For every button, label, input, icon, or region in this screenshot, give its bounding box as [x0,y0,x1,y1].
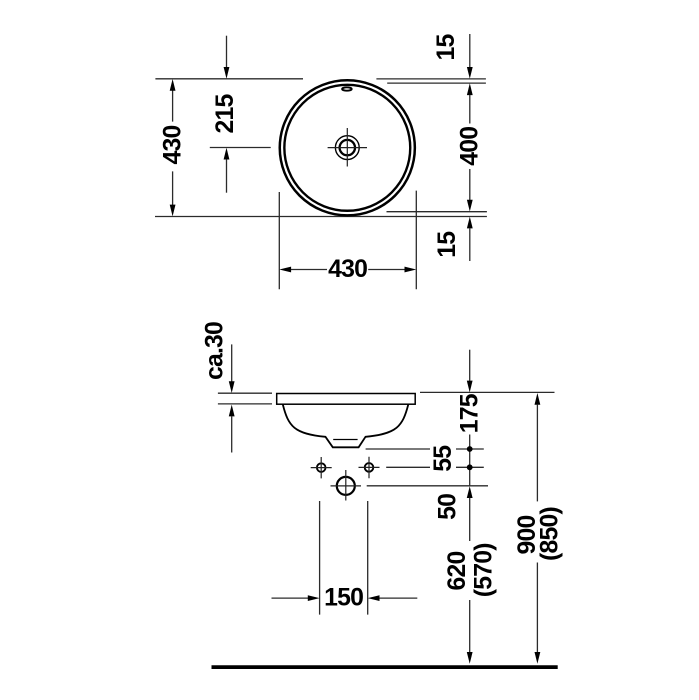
400 dim shaft segments [469,95,471,201]
extension line bottom tangent (long) [155,216,487,218]
900 dim shaft [535,393,541,405]
waste outlet inner line [333,439,357,441]
drain inner circle [340,140,355,155]
dimension 430 bottom: arrowheads [279,267,416,273]
drain outer circle [335,136,359,160]
svg-text:215: 215 [212,94,239,134]
svg-text:400: 400 [457,127,484,166]
arrow down to outer tangent [467,67,473,79]
label 55 [430,445,456,474]
extension line top-left (outer rim top tangent) [155,78,303,80]
svg-text:ca.30: ca.30 [202,322,229,380]
floor line [212,665,558,669]
inner bowl circle [284,85,410,211]
dimension 430 bottom: extension verticals [279,191,416,290]
up arrow at drain line + shaft down [467,486,473,498]
left fixing hole [317,463,326,472]
ca.30 dimension: upper shaft + down arrow [231,344,233,381]
svg-text:(570): (570) [471,543,498,597]
dimension 150: arrowheads [308,595,380,601]
svg-text:430: 430 [159,126,186,165]
front drain hole [337,477,355,495]
drain crosshair vertical [346,128,348,167]
drain crosshair horizontal [328,147,367,149]
label 175 [455,395,485,435]
svg-text:55: 55 [430,445,457,472]
extension line bottom-right inner tangent [387,211,487,213]
dimension 215: lower up arrow + shaft [224,148,230,160]
right dim shaft 175/55/50/620 [469,350,471,381]
basin rim rectangle [277,394,416,405]
svg-text:620: 620 [444,552,471,591]
bowl profile with waste outlet [283,404,409,447]
reference line drain center [367,485,488,487]
dimension 430 left: shaft segments [172,91,174,206]
svg-text:15: 15 [434,231,461,258]
reference line outlet bottom [366,448,484,450]
dimension 430 left: arrowheads [170,79,176,216]
center tick line for 215 [210,147,271,149]
dimension dots [467,446,473,452]
ca.30 dimension: lower up arrow + shaft [229,405,235,417]
svg-text:430: 430 [328,256,367,283]
dimension 430 bottom: line segments [291,269,405,271]
reference line fixing holes [386,466,484,468]
right dim column of top view: upper shaft for 15 [469,34,471,67]
rim top extension line to right [420,391,555,393]
counter reference lines left [218,393,272,404]
extension line top-right outer tangent [376,78,486,80]
svg-text:150: 150 [324,584,363,611]
outer rim circle [280,80,415,215]
faucet hole ellipse [342,87,352,90]
svg-text:175: 175 [456,393,483,433]
dimension 150: extension verticals [320,501,368,615]
svg-text:50: 50 [435,494,462,520]
right fixing hole [365,463,374,472]
extension line top-right inner tangent [387,82,486,84]
arrow down to inner bottom tangent [467,200,473,212]
label 400 (white backing to break shaft) [455,125,484,169]
arrow up to inner tangent [467,83,473,95]
arrow up to outer bottom tangent + lower shaft [467,217,473,229]
dimension 150: line segments [272,597,418,599]
svg-text:(850): (850) [537,507,564,561]
svg-text:15: 15 [433,34,460,61]
dimension 215: upper shaft + down arrow [226,36,228,68]
